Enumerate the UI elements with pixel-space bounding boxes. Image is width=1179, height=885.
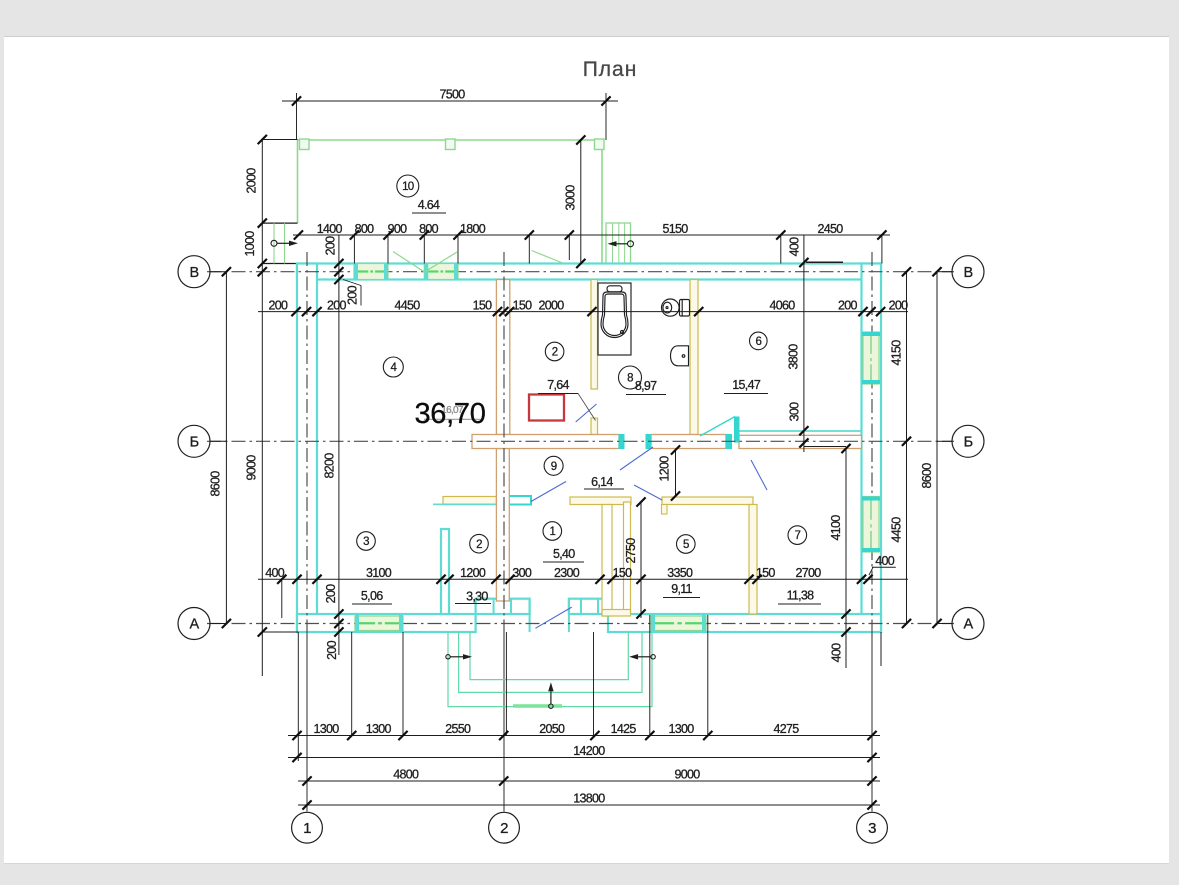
svg-text:9000: 9000	[674, 768, 700, 782]
svg-text:2550: 2550	[445, 722, 471, 736]
svg-text:В: В	[190, 265, 199, 281]
svg-text:5,06: 5,06	[361, 589, 383, 603]
svg-text:А: А	[190, 617, 200, 633]
svg-text:1200: 1200	[658, 456, 672, 482]
svg-text:6,14: 6,14	[591, 475, 613, 489]
svg-text:300: 300	[787, 402, 801, 422]
svg-text:1425: 1425	[611, 722, 637, 736]
svg-text:11,38: 11,38	[787, 589, 815, 603]
svg-text:200: 200	[889, 298, 909, 312]
svg-text:1300: 1300	[668, 722, 694, 736]
svg-text:4100: 4100	[829, 515, 843, 541]
svg-text:3: 3	[868, 820, 876, 837]
svg-text:2: 2	[500, 820, 508, 837]
svg-text:200: 200	[269, 298, 289, 312]
svg-text:3100: 3100	[366, 566, 392, 580]
svg-text:9000: 9000	[245, 455, 259, 481]
svg-text:9: 9	[551, 461, 557, 473]
svg-text:150: 150	[613, 566, 633, 580]
svg-text:7: 7	[794, 530, 800, 542]
svg-text:9,11: 9,11	[671, 582, 692, 596]
svg-text:4450: 4450	[890, 517, 904, 543]
svg-text:8200: 8200	[323, 453, 337, 479]
svg-text:200: 200	[324, 236, 338, 256]
svg-text:2750: 2750	[624, 538, 638, 564]
svg-text:6: 6	[755, 336, 761, 348]
svg-text:3350: 3350	[667, 566, 693, 580]
svg-text:2450: 2450	[817, 222, 843, 236]
svg-text:План: План	[583, 58, 638, 81]
svg-text:2000: 2000	[538, 298, 564, 312]
svg-text:В: В	[964, 265, 973, 281]
svg-text:200: 200	[324, 584, 338, 604]
svg-text:3000: 3000	[564, 185, 578, 211]
svg-text:2: 2	[476, 539, 482, 551]
svg-text:2050: 2050	[539, 722, 565, 736]
svg-text:2000: 2000	[244, 168, 258, 194]
svg-text:А: А	[964, 617, 974, 633]
svg-text:400: 400	[875, 554, 895, 568]
svg-text:1: 1	[549, 526, 555, 538]
svg-text:2300: 2300	[554, 566, 580, 580]
svg-text:7,64: 7,64	[547, 378, 569, 392]
svg-text:1000: 1000	[243, 231, 257, 257]
svg-text:8,97: 8,97	[635, 379, 657, 393]
svg-text:36,70: 36,70	[414, 398, 485, 430]
svg-text:7500: 7500	[439, 88, 465, 102]
svg-text:1300: 1300	[366, 722, 392, 736]
svg-text:3800: 3800	[787, 344, 801, 370]
svg-text:800: 800	[419, 222, 439, 236]
svg-text:3: 3	[363, 536, 369, 548]
svg-text:Б: Б	[964, 435, 973, 451]
svg-text:150: 150	[473, 298, 493, 312]
svg-text:15,47: 15,47	[732, 378, 761, 392]
svg-text:200: 200	[325, 640, 339, 660]
svg-text:800: 800	[355, 222, 375, 236]
svg-text:200: 200	[346, 285, 360, 305]
svg-text:4150: 4150	[890, 340, 904, 366]
svg-text:5: 5	[683, 539, 689, 551]
svg-text:4275: 4275	[773, 722, 799, 736]
svg-text:400: 400	[788, 237, 802, 257]
svg-text:2700: 2700	[795, 566, 821, 580]
svg-text:1: 1	[303, 820, 311, 837]
svg-text:13800: 13800	[573, 792, 605, 806]
svg-text:8600: 8600	[920, 463, 934, 489]
svg-text:1200: 1200	[460, 566, 486, 580]
svg-text:4.64: 4.64	[418, 198, 440, 212]
svg-text:1800: 1800	[460, 222, 486, 236]
svg-text:300: 300	[512, 566, 532, 580]
svg-text:200: 200	[838, 298, 858, 312]
svg-text:5150: 5150	[662, 222, 688, 236]
svg-text:8600: 8600	[208, 471, 222, 497]
svg-text:3,30: 3,30	[466, 590, 488, 604]
svg-text:1300: 1300	[313, 722, 339, 736]
svg-text:400: 400	[830, 643, 844, 663]
svg-text:10: 10	[402, 181, 414, 193]
svg-text:4800: 4800	[393, 768, 419, 782]
svg-text:4060: 4060	[769, 298, 795, 312]
svg-text:Б: Б	[190, 435, 199, 451]
svg-text:150: 150	[513, 298, 533, 312]
svg-text:8: 8	[627, 373, 633, 385]
svg-text:2: 2	[552, 347, 558, 359]
svg-text:4450: 4450	[394, 298, 420, 312]
svg-text:5,40: 5,40	[553, 547, 575, 561]
svg-text:14200: 14200	[573, 744, 605, 758]
svg-text:1400: 1400	[317, 222, 343, 236]
svg-text:200: 200	[327, 298, 347, 312]
